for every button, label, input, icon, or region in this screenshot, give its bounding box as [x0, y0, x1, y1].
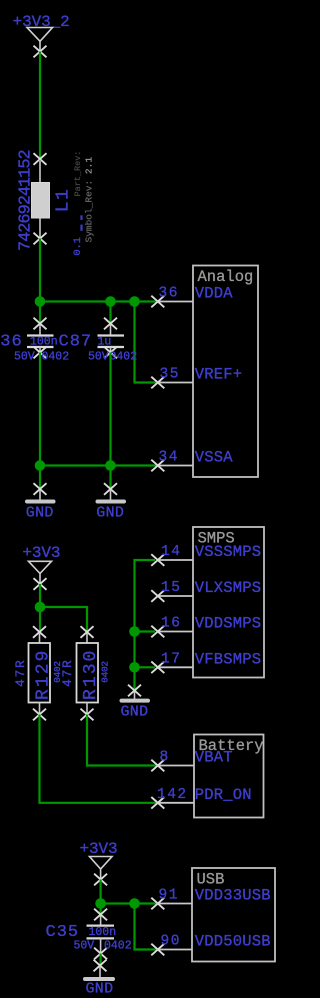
svg-text:36: 36 [159, 286, 179, 302]
wire branch to VDD50USB [135, 904, 157, 950]
pin 16 VDDSMPS [151, 615, 261, 638]
pin 91 VDD33USB [151, 887, 271, 910]
resistor R129 [29, 626, 51, 720]
svg-text:+3V3: +3V3 [80, 840, 118, 858]
L1 attribute underscore [80, 215, 82, 220]
svg-text:74269241152: 74269241152 [17, 150, 36, 251]
svg-text:35: 35 [160, 367, 180, 383]
svg-text:50V: 50V [88, 351, 109, 364]
power flag +3V3_2 [13, 13, 70, 57]
svg-text:Analog: Analog [198, 268, 254, 286]
svg-text:PDR_ON: PDR_ON [195, 786, 252, 804]
svg-text:VDD50USB: VDD50USB [195, 933, 271, 951]
L1 attribute underscore [80, 225, 82, 231]
svg-text:0402: 0402 [100, 661, 111, 683]
resistor R130 [77, 626, 99, 720]
pin 35 VREF+ [151, 366, 242, 389]
wire VDDA bus [40, 300, 156, 302]
svg-text:Symbol_Rev: 2.1: Symbol_Rev: 2.1 [84, 157, 95, 243]
svg-text:VSSA: VSSA [195, 449, 234, 467]
ground GND (right) [96, 466, 124, 522]
wire to pin 17 [135, 666, 156, 668]
svg-text:0.1: 0.1 [72, 237, 84, 255]
wire C35 to GND [99, 954, 101, 966]
IC block SMPS [193, 527, 264, 678]
svg-text:+3V3: +3V3 [22, 544, 60, 562]
pin 90 VDD50USB [151, 933, 271, 956]
wire to R129 [39, 607, 41, 632]
wire C87 to VSSA bus [109, 353, 111, 466]
junction node [129, 898, 140, 909]
junction node [129, 626, 140, 637]
svg-text:14: 14 [161, 544, 181, 560]
pin 8 VBAT [151, 749, 233, 772]
wire branch to R130 [40, 607, 87, 632]
svg-text:VDDA: VDDA [195, 285, 234, 303]
IC block USB [192, 868, 275, 962]
svg-text:VSSSMPS: VSSSMPS [195, 543, 262, 561]
wire VDD33USB bus [101, 902, 156, 904]
wire R130 to VBAT [87, 715, 156, 766]
pin 142 PDR_ON [151, 786, 252, 809]
svg-text:34: 34 [159, 450, 179, 466]
ground GND (bottom) [85, 960, 113, 998]
svg-text:50V: 50V [14, 351, 35, 364]
IC block Battery [194, 735, 264, 818]
wire to pin 16 [135, 630, 156, 632]
wire VSSA bus [40, 464, 156, 466]
pin 15 VLXSMPS [151, 579, 261, 602]
svg-text:50V: 50V [74, 940, 95, 953]
wire +3V3 down [39, 584, 41, 607]
svg-text:15: 15 [161, 580, 181, 596]
svg-text:VFBSMPS: VFBSMPS [195, 650, 262, 668]
junction node [105, 296, 116, 307]
IC block Analog [193, 266, 258, 478]
junction node [129, 662, 140, 673]
svg-text:91: 91 [159, 888, 179, 904]
svg-text:100n: 100n [30, 336, 58, 349]
svg-text:GND: GND [26, 505, 54, 522]
svg-text:142: 142 [157, 787, 188, 803]
svg-text:0402: 0402 [110, 351, 138, 364]
power flag +3V3 (USB) [80, 840, 118, 885]
svg-text:8: 8 [160, 750, 170, 766]
junction node [35, 296, 46, 307]
svg-text:90: 90 [161, 934, 181, 950]
svg-text:VBAT: VBAT [195, 749, 233, 767]
svg-text:47R: 47R [13, 658, 28, 687]
wire L1 to VDDA bus [39, 239, 41, 302]
capacitor C87 [98, 302, 125, 359]
svg-text:17: 17 [161, 651, 181, 667]
svg-text:L1: L1 [54, 188, 74, 213]
junction node [129, 296, 140, 307]
svg-text:VREF+: VREF+ [195, 366, 243, 384]
svg-text:R130: R130 [81, 649, 101, 700]
capacitor C35 [87, 904, 115, 960]
inductor L1 [32, 153, 50, 244]
svg-text:C87: C87 [59, 333, 93, 352]
junction node [105, 460, 116, 471]
ground GND (SMPS) [121, 685, 149, 721]
pin 14 VSSSMPS [151, 543, 261, 566]
capacitor C36 [27, 302, 54, 359]
wire C36 to VSSA bus [39, 353, 41, 466]
wire +3V3_2 to L1 [39, 52, 41, 160]
svg-text:16: 16 [161, 616, 181, 632]
svg-text:R129: R129 [33, 649, 53, 700]
pin 17 VFBSMPS [151, 650, 261, 673]
svg-text:VDD33USB: VDD33USB [195, 887, 271, 905]
svg-text:0402: 0402 [42, 351, 70, 364]
wire +3V3 down [99, 880, 101, 904]
svg-text:Part_Rev:: Part_Rev: [73, 151, 83, 197]
svg-text:GND: GND [121, 704, 149, 721]
junction node [95, 898, 106, 909]
power flag +3V3 (SMPS) [22, 544, 60, 590]
wire R129 to PDR_ON [40, 715, 157, 803]
ground GND (left) [26, 466, 54, 522]
svg-text:GND: GND [96, 505, 124, 522]
svg-text:C36: C36 [0, 333, 23, 352]
pin 36 VDDA [151, 285, 233, 308]
svg-text:GND: GND [86, 981, 114, 998]
svg-text:VDDSMPS: VDDSMPS [195, 615, 262, 633]
svg-text:100n: 100n [89, 926, 117, 939]
junction node [35, 602, 46, 613]
svg-text:47R: 47R [60, 658, 75, 687]
svg-text:1u: 1u [98, 336, 112, 349]
wire VSSSMPS net [135, 560, 156, 689]
svg-text:VLXSMPS: VLXSMPS [195, 579, 262, 597]
wire VREF+ branch [135, 302, 157, 383]
pin 34 VSSA [151, 449, 233, 472]
svg-text:0402: 0402 [104, 940, 132, 953]
junction node [35, 460, 46, 471]
